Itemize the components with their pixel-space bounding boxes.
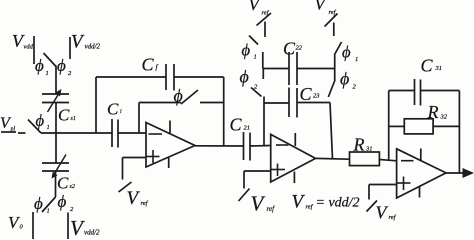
- svg-text:31: 31: [365, 146, 373, 153]
- terminal V_0: [32, 212, 34, 239]
- wire mid-right node: [334, 55, 336, 80]
- wire C_f right: [174, 76, 224, 78]
- svg-text:= vdd/2: = vdd/2: [316, 196, 360, 211]
- svg-text:V: V: [251, 192, 266, 216]
- wire C_f drop to input node: [95, 77, 97, 133]
- U3 Vref slash: [367, 201, 378, 212]
- svg-text:C: C: [107, 100, 119, 119]
- U3 plus input drop: [368, 185, 370, 200]
- U1 top supply tick: [169, 121, 171, 134]
- wire C_i to op-amp U1: [118, 132, 146, 134]
- wire C_s2 to switch node: [55, 171, 57, 197]
- svg-text:1: 1: [47, 124, 50, 131]
- wire C_23 right: [297, 102, 330, 104]
- capacitor C_i left plate: [111, 119, 113, 147]
- terminal V_vdd/2 (bottom): [67, 213, 69, 240]
- svg-text:32: 32: [440, 114, 448, 121]
- svg-text:V: V: [249, 0, 262, 14]
- capacitor C_22 right plate: [296, 52, 298, 85]
- svg-text:V: V: [70, 216, 85, 239]
- op-amp U1 triangle: [146, 123, 195, 168]
- svg-text:C: C: [300, 84, 313, 104]
- switch phi1 lever (top-left): [44, 53, 57, 67]
- wire U2 output: [316, 157, 350, 160]
- wire U3 feedback left rail: [388, 91, 390, 161]
- wire C_s1 to input node: [55, 103, 57, 134]
- capacitor C_21 right plate: [249, 133, 251, 161]
- U2 bottom supply tick: [293, 172, 295, 184]
- U2 plus input drop: [243, 171, 245, 189]
- svg-text:s1: s1: [71, 116, 76, 122]
- svg-text:vdd/2: vdd/2: [85, 43, 101, 51]
- wire switch node to C_s1: [55, 66, 57, 95]
- capacitor C_i right plate: [117, 120, 119, 148]
- wire mid-left node: [262, 52, 264, 69]
- svg-text:V: V: [71, 32, 85, 53]
- capacitor C_23 right plate: [296, 88, 298, 118]
- svg-text:31: 31: [435, 65, 443, 72]
- capacitor C_22 left plate: [288, 52, 290, 85]
- svg-text:i: i: [120, 109, 122, 115]
- U1 bottom supply tick: [168, 157, 170, 168]
- wire mid-left node upper: [262, 69, 264, 80]
- svg-text:1: 1: [46, 70, 49, 77]
- svg-text:ϕ: ϕ: [58, 192, 67, 211]
- wire feedback drop to U1 output: [223, 77, 225, 146]
- svg-text:1: 1: [254, 54, 257, 61]
- op-amp U3 triangle: [397, 149, 446, 198]
- wire R_32 right: [433, 125, 459, 127]
- svg-text:vdd: vdd: [24, 44, 34, 51]
- svg-text:ref: ref: [267, 205, 276, 213]
- capacitor C_f right plate: [173, 64, 175, 91]
- wire U3 output: [446, 172, 466, 174]
- capacitor C_21 left plate: [243, 132, 245, 160]
- svg-text:2: 2: [254, 84, 258, 91]
- V_ref tick (mid-left): [264, 22, 266, 38]
- switch phi2 lever (mid-left): [251, 88, 262, 97]
- V_ref slash (mid-right): [325, 14, 338, 27]
- U3 top supply tick: [420, 149, 422, 161]
- svg-text:ϕ: ϕ: [342, 43, 351, 62]
- svg-text:V: V: [292, 192, 306, 213]
- svg-text:C: C: [57, 174, 69, 193]
- svg-text:C: C: [421, 56, 434, 76]
- wire phi-switch drop: [138, 103, 140, 134]
- wire input node to C_s2: [55, 133, 57, 163]
- wire C_23 drop to U2 output: [330, 103, 333, 160]
- wire phi-switch left: [139, 102, 181, 104]
- V_ref tick (mid-right): [333, 23, 335, 37]
- capacitor C_f left plate: [165, 64, 167, 90]
- svg-text:R: R: [427, 102, 439, 122]
- capacitor C_23 left plate: [288, 88, 290, 118]
- wire R_31 to U3: [379, 160, 396, 161]
- capacitor C_s1 top plate: [42, 93, 69, 95]
- svg-text:C: C: [230, 115, 243, 135]
- svg-text:2: 2: [68, 70, 72, 77]
- svg-text:2: 2: [70, 206, 74, 213]
- svg-text:vdd/2: vdd/2: [84, 229, 100, 237]
- svg-text:ϕ: ϕ: [340, 69, 349, 89]
- U1 minus sign: [149, 133, 163, 135]
- switch phi2 lever (mid-right): [328, 80, 335, 97]
- U2 minus sign: [276, 144, 289, 146]
- svg-text:f: f: [156, 64, 159, 72]
- svg-text:ref: ref: [306, 204, 314, 211]
- wire V_pl stub: [18, 132, 26, 134]
- terminal V_vdd: [33, 36, 35, 64]
- U2 plus input wire: [244, 170, 271, 172]
- wire C_23 left: [264, 102, 289, 104]
- wire mid-left node to U2 input: [263, 97, 265, 146]
- svg-text:V: V: [127, 188, 141, 209]
- capacitor C_s2 top plate: [42, 162, 69, 164]
- wire phi-switch right: [200, 102, 224, 104]
- wire input node: [41, 132, 112, 134]
- capacitor C_31 right plate: [420, 80, 422, 106]
- wire U1 output: [195, 145, 244, 147]
- svg-text:ϕ: ϕ: [174, 86, 183, 106]
- U2 top supply tick: [294, 133, 296, 146]
- U1 plus input wire: [123, 157, 147, 159]
- svg-text:0: 0: [20, 224, 24, 231]
- svg-text:V: V: [315, 0, 328, 14]
- svg-text:1: 1: [47, 208, 50, 215]
- svg-text:ref: ref: [141, 200, 149, 207]
- output arrowhead: [463, 168, 474, 178]
- switch phi1 lever (mid-left): [249, 36, 258, 45]
- capacitor C_s1 bottom plate: [42, 102, 69, 104]
- svg-text:ϕ: ϕ: [240, 67, 249, 87]
- switch phi lever (U1 feedback): [181, 90, 198, 104]
- V_ref slash (mid-left): [257, 13, 272, 26]
- C_s2 variable arrow: [52, 155, 67, 179]
- svg-text:R: R: [353, 135, 365, 155]
- svg-text:ϕ: ϕ: [34, 194, 43, 213]
- resistor R_31 box: [350, 152, 380, 166]
- svg-text:ϕ: ϕ: [36, 111, 45, 130]
- capacitor C_31 left plate: [414, 79, 416, 105]
- op-amp U2 triangle: [271, 134, 316, 182]
- svg-text:C: C: [142, 55, 155, 75]
- U3 plus sign: [397, 177, 411, 191]
- wire C_f left: [96, 76, 166, 78]
- U3 minus sign: [401, 160, 414, 162]
- U2 Vref slash: [239, 189, 250, 202]
- svg-text:s2: s2: [70, 184, 75, 190]
- svg-text:C: C: [58, 106, 70, 125]
- U1 plus input drop: [122, 158, 124, 180]
- switch phi1 lever (V_pl): [28, 120, 41, 134]
- wire R_32 left: [389, 125, 405, 127]
- svg-text:ϕ: ϕ: [242, 41, 251, 60]
- switch phi1 lever (mid-right): [334, 42, 341, 55]
- wire C_22 right: [297, 68, 335, 70]
- svg-text:V: V: [376, 203, 389, 223]
- svg-text:C: C: [283, 39, 296, 59]
- terminal V_vdd/2 (top): [69, 37, 71, 59]
- svg-text:ϕ: ϕ: [57, 56, 66, 75]
- wire U3 feedback right rail: [458, 91, 460, 174]
- capacitor C_s2 bottom plate: [42, 170, 69, 172]
- V_pl underline: [1, 131, 16, 133]
- U3 plus input wire: [369, 184, 397, 186]
- svg-text:ref: ref: [389, 214, 397, 221]
- wire C_31 right: [421, 90, 460, 92]
- svg-text:2: 2: [353, 84, 357, 91]
- svg-text:21: 21: [244, 125, 251, 132]
- switch phi1 lever (bottom): [42, 197, 56, 212]
- resistor R_32 box: [404, 119, 433, 134]
- C_s1 variable arrow: [48, 89, 62, 112]
- wire C_22 left: [263, 68, 289, 70]
- svg-text:ϕ: ϕ: [35, 56, 44, 75]
- wire C_21 to U2: [250, 145, 271, 148]
- svg-text:22: 22: [296, 45, 303, 52]
- U1 plus sign: [147, 150, 160, 163]
- svg-text:23: 23: [313, 93, 320, 100]
- svg-text:1: 1: [355, 56, 358, 63]
- wire C_31 left: [389, 90, 415, 92]
- U1 Vref slash: [119, 182, 132, 192]
- U3 bottom supply tick: [419, 186, 421, 198]
- U2 plus sign: [272, 164, 286, 177]
